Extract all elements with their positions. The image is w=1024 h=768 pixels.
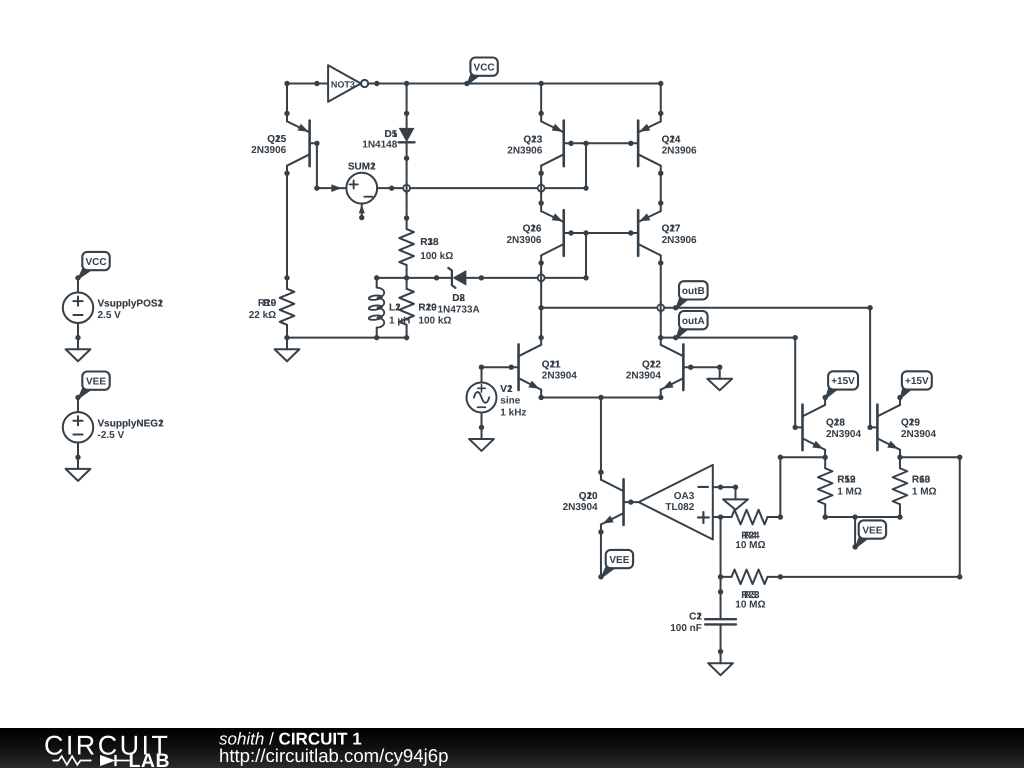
svg-text:VEE: VEE [862,525,882,536]
svg-text:1 kHz: 1 kHz [500,407,526,418]
svg-text:2N3904: 2N3904 [542,371,577,382]
svg-text:2N3904: 2N3904 [563,502,598,513]
svg-text:outB: outB [682,286,705,297]
svg-text:+15V: +15V [831,376,855,387]
svg-text:TL082: TL082 [665,502,694,513]
svg-text:VsupplyPOS2: VsupplyPOS2 [98,299,164,310]
svg-text:2N3906: 2N3906 [251,145,286,156]
svg-text:22 kΩ: 22 kΩ [249,310,276,321]
svg-text:NOT3: NOT3 [331,80,355,90]
svg-text:C2: C2 [689,611,702,622]
svg-text:sine: sine [500,396,520,407]
svg-text:VEE: VEE [609,555,629,566]
svg-text:Q21: Q21 [542,360,561,371]
svg-text:100 kΩ: 100 kΩ [418,316,451,327]
svg-text:1 µH: 1 µH [389,316,410,327]
svg-text:outA: outA [682,316,705,327]
svg-text:R60: R60 [912,475,931,486]
svg-text:Q22: Q22 [642,360,661,371]
svg-text:1N4148: 1N4148 [362,140,397,151]
svg-text:10 MΩ: 10 MΩ [735,600,765,611]
svg-text:R20: R20 [418,303,437,314]
svg-text:D5: D5 [385,129,398,140]
svg-text:Q20: Q20 [579,491,598,502]
svg-text:-2.5 V: -2.5 V [98,430,125,441]
svg-text:LAB: LAB [129,750,171,768]
svg-text:VCC: VCC [474,62,495,73]
svg-text:1 MΩ: 1 MΩ [912,486,937,497]
svg-text:SUM2: SUM2 [348,162,376,173]
svg-text:L2: L2 [389,303,401,314]
svg-text:1N4733A: 1N4733A [437,305,479,316]
svg-text:100 nF: 100 nF [670,623,702,634]
svg-text:R38: R38 [420,237,439,248]
svg-text:Q29: Q29 [901,418,920,429]
svg-text:R10: R10 [258,298,277,309]
svg-text:Q24: Q24 [662,134,681,145]
svg-text:2N3904: 2N3904 [901,429,936,440]
svg-text:2N3906: 2N3906 [506,235,541,246]
svg-text:+15V: +15V [905,376,929,387]
svg-text:1 MΩ: 1 MΩ [837,486,862,497]
svg-text:2N3904: 2N3904 [826,429,861,440]
svg-text:2N3906: 2N3906 [662,145,697,156]
svg-text:Q23: Q23 [523,134,542,145]
svg-text:Q27: Q27 [662,224,681,235]
svg-text:http://circuitlab.com/cy94j6p: http://circuitlab.com/cy94j6p [219,745,448,766]
svg-text:2.5 V: 2.5 V [98,310,122,321]
svg-text:100 kΩ: 100 kΩ [420,251,453,262]
svg-text:2N3904: 2N3904 [626,371,661,382]
svg-text:2N3906: 2N3906 [662,235,697,246]
svg-text:Q28: Q28 [826,418,845,429]
svg-text:D8: D8 [452,293,465,304]
svg-text:OA3: OA3 [674,491,695,502]
svg-text:10 MΩ: 10 MΩ [735,540,765,551]
svg-text:Q25: Q25 [267,134,286,145]
svg-text:Q26: Q26 [523,224,542,235]
svg-text:VEE: VEE [86,376,106,387]
svg-text:VsupplyNEG2: VsupplyNEG2 [98,419,165,430]
svg-text:R59: R59 [837,475,856,486]
svg-text:2N3906: 2N3906 [507,145,542,156]
svg-text:VCC: VCC [85,257,106,268]
svg-text:V2: V2 [500,384,513,395]
